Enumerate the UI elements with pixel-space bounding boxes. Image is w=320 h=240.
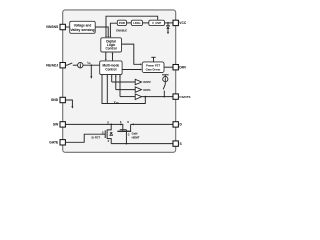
IC outline U1 (63, 10, 176, 152)
pin GND (51, 97, 66, 102)
wire: logic to gate driver (122, 44, 143, 65)
block Power FET Gate Driver (142, 62, 164, 73)
svg-text:VINSNS: VINSNS (46, 25, 59, 29)
pin CS/OTS (173, 94, 190, 99)
pin SW (53, 122, 66, 127)
current source I2 on FB line (78, 62, 83, 67)
pin VINSNS (46, 24, 70, 29)
switch S1 on FB line (65, 63, 77, 65)
wire: GaN drain to D pin (131, 124, 173, 126)
wire: SW rail to GaN source (65, 124, 122, 131)
wire: VTH feedback loop (102, 75, 145, 105)
block VCC OVP (149, 20, 165, 25)
pin DRV (173, 65, 187, 70)
pin GATE (49, 140, 65, 145)
transistor Q1 Si FET (91, 123, 112, 144)
svg-text:GATE: GATE (49, 141, 59, 145)
svg-text:SW: SW (53, 123, 59, 127)
svg-text:HEMT: HEMT (132, 135, 140, 139)
svg-text:FB/ADJ: FB/ADJ (46, 64, 58, 68)
comparator U3 (CS) (119, 75, 141, 100)
svg-text:LDOs: LDOs (133, 21, 141, 25)
block Digital Logic Control (101, 38, 122, 52)
svg-text:G: G (102, 132, 104, 134)
wire: comparator output to CS/OTS pin (142, 96, 174, 98)
pin S (173, 141, 183, 146)
wire: Si FET source / GaN gate to S pin (111, 143, 173, 145)
zener diode to ground at VCC (167, 23, 170, 34)
ground arrow at GND pin (65, 100, 73, 109)
pin D (173, 122, 183, 127)
transistor Q2 GaN HEMT (117, 122, 139, 143)
svg-text:GND: GND (51, 98, 59, 102)
svg-text:ENABLE: ENABLE (116, 28, 127, 32)
svg-text:VCC: VCC (179, 21, 187, 25)
wire: POR-LDOs-OVP chain to VCC (127, 22, 174, 24)
wire: GATE to Si FET gate (65, 134, 105, 142)
current source I1 with switch to CS line (162, 75, 169, 98)
comparator OCP1 (115, 75, 151, 93)
svg-text:OCP1: OCP1 (143, 88, 151, 92)
wire: FB node to Multi-mode (83, 62, 100, 67)
svg-text:Control: Control (106, 46, 117, 50)
svg-text:V_OVP: V_OVP (152, 21, 161, 25)
svg-text:Power FET: Power FET (146, 63, 161, 67)
svg-text:G: G (128, 134, 130, 136)
svg-text:S: S (180, 142, 183, 146)
svg-text:DRV: DRV (179, 66, 187, 70)
svg-text:Valley sensing: Valley sensing (70, 28, 94, 32)
wire: multi-mode to logic (up arrow) (112, 52, 114, 61)
wire: top rail to OVP (105, 16, 158, 38)
block: Voltage and Valley sensing (70, 21, 96, 33)
wire ENABLE: POR to logic (110, 23, 128, 38)
svg-text:D: D (180, 123, 183, 127)
pin VCC (173, 20, 187, 25)
svg-text:CS/OTS: CS/OTS (179, 95, 190, 99)
block POR (117, 20, 126, 25)
svg-text:OCP2: OCP2 (143, 80, 151, 84)
pin FB/ADJ (46, 63, 65, 68)
comparator OCP2 (111, 75, 151, 85)
block LDOs (131, 20, 142, 25)
ground arrow at FB node (90, 65, 92, 79)
svg-text:Voltage and: Voltage and (74, 24, 92, 28)
svg-text:POR: POR (119, 21, 125, 25)
block Multi-mode Control (100, 61, 122, 75)
svg-text:Control: Control (105, 67, 116, 71)
wire: sensing output to logic (95, 27, 109, 38)
supply tick above gate driver (151, 57, 155, 62)
wire: logic to multi-mode (down arrow) (105, 52, 107, 61)
svg-text:Gate Driver: Gate Driver (146, 67, 162, 71)
svg-text:Si FET: Si FET (91, 136, 100, 140)
wire: multi-mode to gate driver (122, 69, 142, 71)
wire: gate driver to DRV (164, 66, 173, 68)
